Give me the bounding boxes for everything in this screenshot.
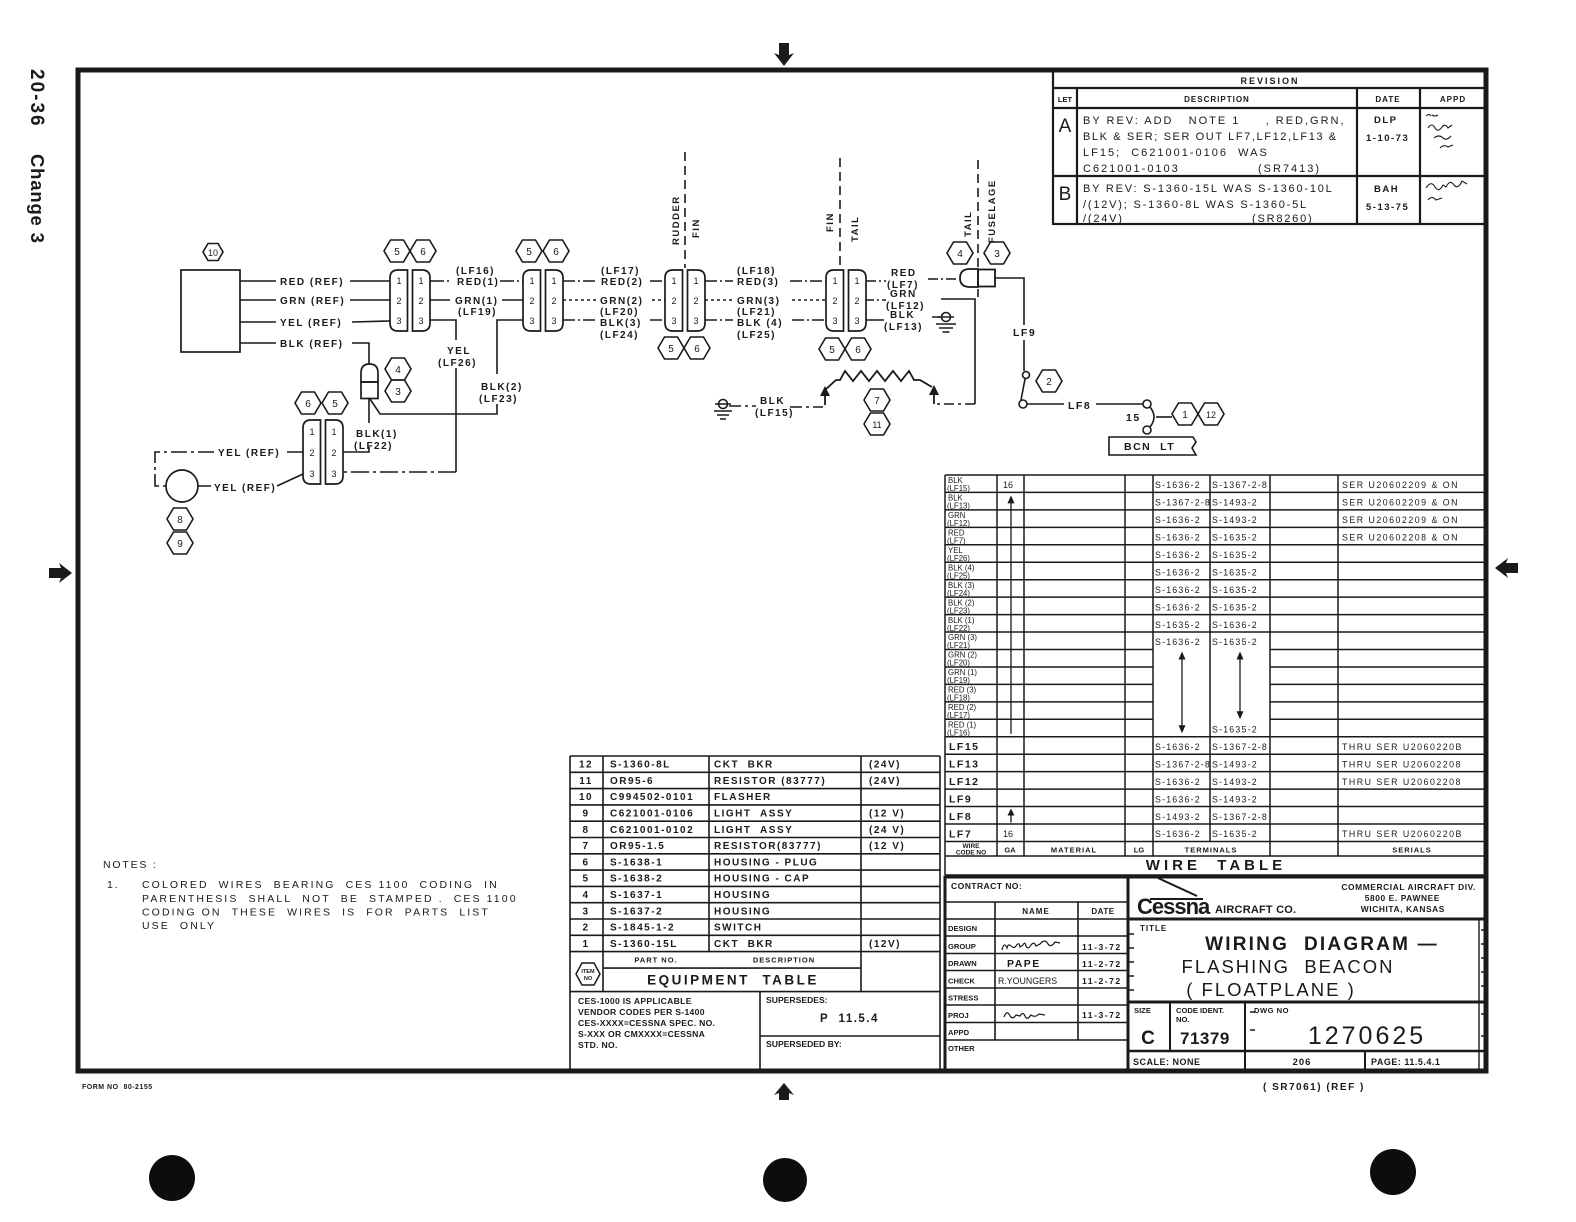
hex callout 1 at breaker xyxy=(1172,403,1198,425)
hex callout 9 at light xyxy=(167,532,193,554)
station line FIN/TAIL xyxy=(825,158,861,268)
svg-text:USE ONLY: USE ONLY xyxy=(142,920,216,932)
wire GRN (REF) xyxy=(240,296,390,307)
border frame xyxy=(78,70,1486,1071)
svg-text:PARENTHESIS SHALL NOT BE S: PARENTHESIS SHALL NOT BE STAMPED . CES 1… xyxy=(142,893,518,905)
registration arrow left xyxy=(49,563,72,583)
wire BLK(3) (LF24) xyxy=(563,318,665,341)
hex callout 6 below connector P4 xyxy=(845,338,871,360)
wire RED (REF) xyxy=(240,277,390,288)
SR7061 ref note xyxy=(1263,1082,1365,1093)
svg-text:FORM NO 80-2155: FORM NO 80-2155 xyxy=(82,1084,153,1091)
svg-text:WIRING DIAGRAM —: WIRING DIAGRAM — xyxy=(1205,934,1439,955)
hex callout 5 above connector P5 xyxy=(322,392,348,414)
svg-text:AIRCRAFT CO.: AIRCRAFT CO. xyxy=(1215,904,1296,916)
svg-text:1.: 1. xyxy=(107,879,119,891)
hex callout 6 below connector P3 xyxy=(684,337,710,359)
group signature handwriting xyxy=(1002,941,1060,1018)
svg-text:OTHER: OTHER xyxy=(948,1044,975,1053)
svg-text:COMMERCIAL AIRCRAFT DIV.: COMMERCIAL AIRCRAFT DIV. xyxy=(1341,882,1476,892)
connector P5 (items 5/6) xyxy=(303,420,343,484)
connector P1 (items 5/6) xyxy=(390,270,430,331)
svg-text:TITLE: TITLE xyxy=(1140,924,1167,933)
svg-text:CODE IDENT.: CODE IDENT. xyxy=(1176,1006,1224,1015)
hex callout 5 above connector P1 xyxy=(384,240,410,262)
resistor (items 7/11) xyxy=(825,371,934,405)
wire RED(2) (LF17) xyxy=(563,266,665,288)
svg-text:WICHITA, KANSAS: WICHITA, KANSAS xyxy=(1361,904,1445,914)
hex callout 4 at housing xyxy=(385,358,411,380)
svg-text:DWG NO: DWG NO xyxy=(1254,1006,1289,1015)
wire YEL (REF) xyxy=(240,318,390,329)
svg-text:PROJ: PROJ xyxy=(948,1011,969,1020)
svg-text:SCALE: NONE: SCALE: NONE xyxy=(1133,1057,1201,1067)
connector P3 (items 5/6) xyxy=(665,270,705,331)
wire GRN(2) (LF20) xyxy=(563,296,665,318)
binder hole center xyxy=(763,1158,807,1202)
GA ditto arrow xyxy=(1010,502,1012,733)
wire table xyxy=(945,475,1487,875)
svg-text:APPD: APPD xyxy=(948,1028,970,1037)
wire GRN(1) (LF19) xyxy=(430,296,523,318)
wire RED(1) (LF16) xyxy=(430,266,523,288)
hex callout 12 at breaker xyxy=(1198,403,1224,425)
cessna logo xyxy=(1137,882,1476,919)
contract no block xyxy=(948,881,1122,1053)
station line RUDDER/FIN xyxy=(671,152,702,268)
page number margin text xyxy=(26,69,48,244)
revision table xyxy=(1053,70,1487,224)
wire BLK(1) (LF22) housing to P5 pin2 xyxy=(343,399,398,452)
wire BLK(2) (LF23) from P2 pin3 down-left xyxy=(370,320,523,414)
svg-text:5800 E. PAWNEE: 5800 E. PAWNEE xyxy=(1365,893,1440,903)
wire YEL (REF) light to P5 pin3 xyxy=(198,474,303,494)
registration arrow right xyxy=(1495,558,1518,578)
beacon light assy (items 8/9) xyxy=(960,269,995,287)
hex callout 3 at housing xyxy=(385,380,411,402)
ground symbol at LF13 xyxy=(936,313,956,333)
registration arrow top xyxy=(774,43,794,66)
svg-text:FLASHING BEACON: FLASHING BEACON xyxy=(1182,956,1395,977)
wire YEL (REF) to P5 pin2 xyxy=(155,448,303,486)
svg-text:CHECK: CHECK xyxy=(948,977,976,986)
wire BLK (REF) xyxy=(240,339,369,364)
size / code ident / dwg no xyxy=(1133,1006,1440,1068)
svg-text:DRAWN: DRAWN xyxy=(948,959,977,968)
svg-text:11-3-72: 11-3-72 xyxy=(1082,942,1122,952)
svg-text:DESIGN: DESIGN xyxy=(948,924,977,933)
wire GRN(3) (LF21) xyxy=(705,296,826,318)
hex callout 2 at switch xyxy=(1036,370,1062,392)
hex callout 6 above connector P5 xyxy=(295,392,321,414)
binder hole right xyxy=(1370,1149,1416,1195)
wire BLK (LF15) to resistor xyxy=(729,396,823,419)
hex callout 7 at resistor xyxy=(864,389,890,411)
equipment table xyxy=(570,756,940,992)
svg-text:NOTES :: NOTES : xyxy=(103,859,158,871)
hex callout 10 xyxy=(203,244,223,261)
title text xyxy=(1140,924,1439,1000)
svg-text:CONTRACT NO:: CONTRACT NO: xyxy=(951,881,1022,891)
hex callout 4 above beacon xyxy=(947,242,973,264)
ground symbol at LF15 xyxy=(714,400,732,420)
registration arrow bottom xyxy=(774,1083,794,1100)
hex callout 3 above beacon xyxy=(984,242,1010,264)
wire RED(3) (LF18) xyxy=(705,266,826,288)
wire LF8 from switch to breaker xyxy=(1027,400,1143,412)
svg-text:STRESS: STRESS xyxy=(948,994,978,1003)
svg-text:11-2-72: 11-2-72 xyxy=(1082,976,1122,986)
title block frame xyxy=(945,877,1487,1071)
svg-text:CODING ON THESE WIRES IS F: CODING ON THESE WIRES IS FOR PARTS LIST xyxy=(142,907,490,919)
wire GRN (LF12) xyxy=(866,289,975,404)
wire RED (LF7) to beacon xyxy=(866,268,958,291)
svg-text:R.YOUNGERS: R.YOUNGERS xyxy=(998,976,1057,986)
svg-text:COLORED WIRES BEARING CES 1: COLORED WIRES BEARING CES 1100 CODING IN xyxy=(142,879,499,891)
svg-text:PAGE: 11.5.4.1: PAGE: 11.5.4.1 xyxy=(1371,1057,1440,1067)
wire YEL (LF26) xyxy=(343,320,477,472)
wire BLK(4) (LF25) xyxy=(705,318,826,341)
svg-text:206: 206 xyxy=(1293,1057,1312,1068)
notes xyxy=(103,859,518,932)
zone tick marks xyxy=(1129,930,1486,1036)
svg-text:11-2-72: 11-2-72 xyxy=(1082,959,1122,969)
circuit breaker terminal 15 xyxy=(1126,400,1172,434)
terminals ditto arrows xyxy=(1182,658,1240,728)
svg-text:Cessna: Cessna xyxy=(1137,894,1211,919)
svg-text:DATE: DATE xyxy=(1091,907,1114,916)
connector P2 (items 5/6) xyxy=(523,270,563,331)
housing assy (items 4/3) xyxy=(361,364,378,399)
hex callout 5 below connector P3 xyxy=(658,337,684,359)
BCN LT breaker box xyxy=(1109,437,1196,455)
svg-text:SIZE: SIZE xyxy=(1134,1006,1151,1015)
vendor codes note xyxy=(570,992,940,1071)
hex callout 5 below connector P4 xyxy=(819,338,845,360)
svg-text:1270625: 1270625 xyxy=(1308,1022,1426,1050)
form no xyxy=(82,1084,153,1091)
approval signatures (handwriting) xyxy=(1426,115,1467,201)
LF8 GA arrow xyxy=(1010,814,1012,823)
svg-text:( FLOATPLANE ): ( FLOATPLANE ) xyxy=(1186,979,1356,1000)
svg-text:71379: 71379 xyxy=(1180,1029,1230,1048)
station line TAIL/FUSELAGE xyxy=(963,160,998,297)
wire LF9 from beacon to switch xyxy=(995,278,1036,371)
wire BLK (LF13) to ground xyxy=(866,310,940,333)
hex callout 8 at light xyxy=(167,508,193,530)
svg-text:( SR7061) (REF ): ( SR7061) (REF ) xyxy=(1263,1082,1365,1093)
svg-text:NAME: NAME xyxy=(1022,907,1050,916)
svg-text:C: C xyxy=(1141,1028,1155,1049)
hex callout 5 above connector P2 xyxy=(516,240,542,262)
hex callout 6 above connector P1 xyxy=(410,240,436,262)
svg-text:NO.: NO. xyxy=(1176,1015,1190,1024)
svg-text:GROUP: GROUP xyxy=(948,942,976,951)
svg-text:PAPE: PAPE xyxy=(1007,958,1041,970)
hex callout 11 at resistor xyxy=(864,413,890,435)
switch (item 2) xyxy=(1019,372,1030,409)
flasher box (item 10) xyxy=(181,270,240,352)
light assy circle xyxy=(166,470,198,502)
svg-text:11-3-72: 11-3-72 xyxy=(1082,1010,1122,1020)
connector P4 (items 5/6) xyxy=(826,270,866,331)
item no hex symbol xyxy=(576,963,600,985)
binder hole left xyxy=(149,1155,195,1201)
hex callout 6 above connector P2 xyxy=(543,240,569,262)
